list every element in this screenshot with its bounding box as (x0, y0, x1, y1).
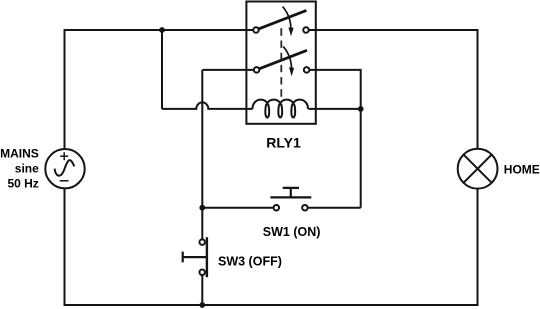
svg-text:sine: sine (15, 162, 39, 176)
svg-text:RLY1: RLY1 (266, 134, 301, 150)
svg-text:SW3 (OFF): SW3 (OFF) (218, 255, 282, 269)
svg-text:SW1 (ON): SW1 (ON) (263, 225, 321, 239)
svg-text:50 Hz: 50 Hz (7, 177, 38, 191)
svg-text:HOME: HOME (504, 163, 540, 177)
svg-text:MAINS: MAINS (0, 147, 39, 161)
